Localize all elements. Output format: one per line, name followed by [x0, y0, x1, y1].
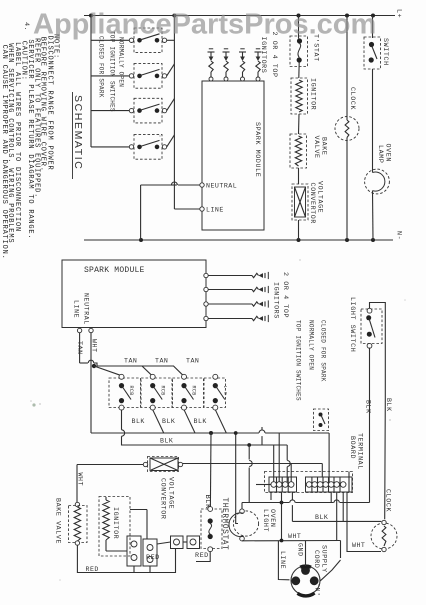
svg-text:SPARK MODULE: SPARK MODULE: [253, 122, 261, 177]
svg-text:THERMOSTAT: THERMOSTAT: [220, 498, 228, 551]
svg-text:BLK: BLK: [315, 514, 328, 521]
svg-text:IGNITOR: IGNITOR: [111, 507, 119, 539]
svg-text:BLK: BLK: [194, 418, 207, 425]
svg-text:LINE: LINE: [73, 300, 80, 318]
svg-text:VOLTAGE: VOLTAGE: [167, 477, 175, 509]
svg-text:TOP IGNITION SWITCHES: TOP IGNITION SWITCHES: [109, 31, 116, 112]
svg-text:WHT: WHT: [90, 339, 97, 353]
svg-text:TAN: TAN: [186, 358, 199, 365]
svg-text:IGNITORS: IGNITORS: [272, 282, 280, 319]
svg-text:TOP IGNITION SWITCHES: TOP IGNITION SWITCHES: [295, 320, 302, 401]
svg-text:BAKE VALVE: BAKE VALVE: [54, 498, 62, 544]
svg-text:TAN: TAN: [76, 341, 83, 355]
svg-text:RED: RED: [146, 554, 160, 562]
svg-text:TAN: TAN: [124, 358, 137, 365]
svg-text:TAN: TAN: [155, 358, 168, 365]
svg-text:BOARD: BOARD: [348, 436, 356, 459]
svg-text:LIGHT SWITCH: LIGHT SWITCH: [348, 297, 356, 352]
svg-text:CONVERTOR: CONVERTOR: [308, 183, 316, 225]
svg-text:L+: L+: [395, 9, 403, 18]
svg-text:WHT: WHT: [288, 533, 301, 540]
svg-text:NORMALLY OPEN: NORMALLY OPEN: [308, 320, 315, 370]
svg-text:NORMALLY OPEN: NORMALLY OPEN: [118, 37, 125, 87]
svg-text:NEUTRAL: NEUTRAL: [83, 293, 90, 325]
svg-text:4.: 4.: [22, 22, 30, 31]
svg-text:LINE: LINE: [206, 207, 224, 214]
svg-text:LINE: LINE: [279, 551, 286, 569]
svg-text:VALVE: VALVE: [312, 136, 320, 159]
svg-text:SWITCH: SWITCH: [381, 38, 389, 66]
svg-text:CORD: CORD: [312, 550, 320, 568]
svg-text:GND: GND: [297, 543, 304, 557]
svg-text:SPARK MODULE: SPARK MODULE: [84, 266, 145, 275]
svg-text:'N': 'N': [314, 583, 321, 597]
svg-text:BLK: BLK: [365, 400, 372, 414]
svg-text:AppliancePartsPros.com: AppliancePartsPros.com: [33, 9, 376, 41]
svg-text:SCHEMATIC: SCHEMATIC: [72, 95, 84, 170]
svg-text:RCB: RCB: [191, 386, 197, 396]
svg-text:LAMP: LAMP: [376, 145, 384, 163]
svg-text:BLK: BLK: [160, 438, 173, 445]
svg-text:CLOSED FOR SPARK: CLOSED FOR SPARK: [98, 36, 105, 98]
svg-text:BLK: BLK: [162, 418, 175, 425]
svg-text:WHT: WHT: [77, 473, 84, 487]
svg-text:LIGHT: LIGHT: [261, 509, 269, 532]
svg-text:NEUTRAL: NEUTRAL: [206, 183, 237, 190]
svg-text:CAN CAUSE IMPROPER AND DANGERO: CAN CAUSE IMPROPER AND DANGEROUS OPERATI…: [0, 45, 8, 260]
svg-text:IGNITOR: IGNITOR: [309, 78, 317, 110]
svg-text:RCB: RCB: [159, 386, 165, 396]
svg-text:BLK: BLK: [132, 418, 145, 425]
svg-text:2 OR 4 TOP: 2 OR 4 TOP: [281, 272, 289, 318]
svg-text:WHT: WHT: [352, 542, 365, 549]
svg-text:CLOCK: CLOCK: [348, 87, 356, 110]
svg-text:L·R: L·R: [222, 386, 228, 395]
svg-text:CONVERTOR: CONVERTOR: [159, 478, 167, 520]
svg-text:N-: N-: [395, 231, 403, 240]
svg-text:CLOSED FOR SPARK: CLOSED FOR SPARK: [320, 320, 327, 382]
svg-text:BLK: BLK: [385, 398, 392, 412]
svg-text:RED: RED: [86, 566, 99, 573]
svg-text:CLOCK: CLOCK: [384, 489, 392, 512]
svg-text:IGNITORS: IGNITORS: [259, 37, 267, 74]
svg-text:RCB: RCB: [128, 386, 134, 396]
svg-text:RED: RED: [195, 552, 209, 560]
